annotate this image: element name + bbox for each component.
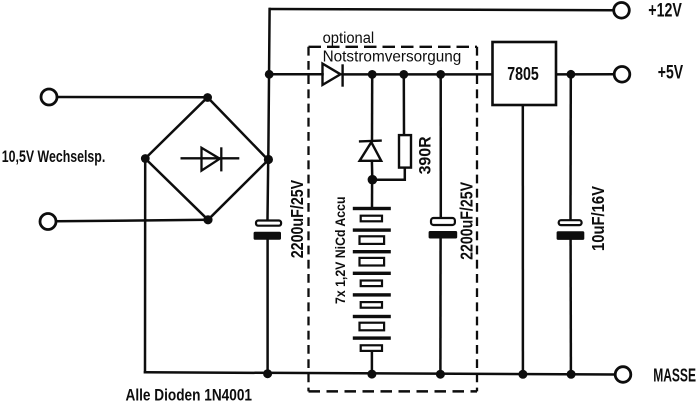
battery cell 6 long plate	[353, 315, 391, 318]
battery cell 7 long plate	[353, 336, 391, 339]
svg-text:+5V: +5V	[658, 63, 683, 84]
wire battery bottom to ground rail	[371, 352, 374, 375]
svg-text:2200uF/25V: 2200uF/25V	[287, 179, 307, 258]
battery B1 7x NiCd cells	[353, 207, 391, 351]
terminal lower AC input	[40, 214, 56, 230]
capacitor C2 2200uF/25V bottom plate	[429, 231, 458, 239]
capacitor C1 2200uF/25V top plate	[256, 221, 281, 226]
junction C2 branch on +5V line	[436, 70, 445, 79]
svg-text:10uF/16V: 10uF/16V	[588, 186, 608, 251]
wire capacitor C1 to ground rail	[266, 240, 269, 374]
battery cell 6 short plate	[360, 323, 385, 331]
battery cell 4 short plate	[361, 281, 382, 287]
diode D2 1N4001 (battery discharge diode, cathode up)	[359, 141, 382, 161]
wire capacitor C3 top: +5V line down to C3	[569, 74, 572, 219]
svg-text:10,5V Wechselsp.: 10,5V Wechselsp.	[2, 147, 106, 166]
battery cell 1 short plate	[361, 216, 382, 222]
battery cell 3 long plate	[353, 250, 391, 253]
bridge rectifier internal diode symbol	[181, 147, 240, 171]
battery cell 5 long plate	[353, 293, 391, 296]
battery cell 2 short plate	[360, 236, 385, 244]
battery cell 1 long plate	[353, 207, 391, 210]
wire +12V rail	[270, 9, 614, 10]
junction D2 branch on +5V line	[368, 70, 377, 79]
wire capacitor C2 top: +5V line down to C2	[439, 74, 442, 217]
battery cell 5 short plate	[361, 302, 382, 308]
svg-text:optional: optional	[323, 30, 375, 47]
wire resistor R1 bottom to junction	[372, 169, 404, 180]
svg-text:7x 1,2V NiCd Accu: 7x 1,2V NiCd Accu	[333, 197, 348, 305]
battery cell 7 short plate	[361, 345, 382, 351]
dashed box right edge	[476, 47, 478, 392]
wire +5V branch from +12V riser to diode D1	[269, 73, 323, 76]
bridge rectifier diamond edge bottom-left	[145, 159, 208, 220]
bridge rectifier diamond edge top-right	[208, 97, 269, 160]
svg-text:Alle Dioden 1N4001: Alle Dioden 1N4001	[126, 385, 253, 402]
svg-text:+12V: +12V	[648, 0, 682, 21]
junction at +12V riser / +5V branch	[265, 70, 274, 79]
voltage regulator U1 7805 body	[493, 42, 557, 105]
diode D1 1N4001 (series diode to 7805)	[323, 64, 343, 87]
svg-text:Notstromversorgung: Notstromversorgung	[323, 49, 462, 66]
junction R1 branch on +5V line	[399, 70, 408, 79]
svg-text:MASSE: MASSE	[653, 364, 696, 385]
junction bridge top node	[203, 93, 212, 102]
bridge rectifier diamond edge bottom-right	[208, 160, 268, 220]
wire 7805 ground pin to ground rail	[522, 105, 525, 374]
junction D2 anode / R1 / battery top	[368, 175, 378, 185]
wire zener branch: +5V line down to diode D2	[371, 74, 374, 141]
svg-text:2200uF/25V: 2200uF/25V	[457, 181, 477, 259]
wire capacitor C3 to ground rail	[569, 240, 572, 374]
terminal +5V output	[614, 67, 630, 83]
junction battery on ground rail	[367, 370, 376, 379]
terminal upper AC input	[41, 89, 57, 105]
dashed box optional Notstromversorgung: top edge	[309, 46, 478, 48]
wire bridge right node down to capacitor C1	[266, 160, 269, 220]
battery cell 4 long plate	[353, 272, 391, 275]
junction 7805 ground on ground rail	[518, 370, 527, 379]
terminal MASSE	[615, 367, 631, 383]
resistor R1 390R body	[399, 135, 411, 168]
junction 7805 output / C3 branch	[567, 70, 576, 79]
wire AC input upper: terminal to bridge top node	[57, 96, 208, 99]
battery cell 3 short plate	[360, 258, 385, 266]
wire junction down to battery top	[371, 180, 374, 207]
junction C3 on ground rail	[567, 370, 576, 379]
junction C1 on ground rail	[263, 369, 272, 378]
capacitor C3 10uF/16V top plate	[559, 220, 582, 225]
wire 7805 output to +5V terminal	[556, 73, 614, 76]
dashed box bottom edge	[309, 390, 478, 393]
wire bridge output up to +12V rail	[268, 9, 269, 160]
wire resistor R1 top: +5V line down to resistor	[403, 74, 406, 135]
junction C2 on ground rail	[436, 370, 445, 379]
terminal +12V output	[614, 3, 630, 19]
svg-text:7805: 7805	[507, 64, 539, 84]
capacitor C2 2200uF/25V top plate	[431, 218, 455, 225]
wire D1 cathode to 7805 input	[343, 73, 493, 76]
junction bridge bottom node	[203, 215, 212, 224]
wire ground rail (MASSE)	[145, 372, 615, 374]
svg-text:390R: 390R	[415, 136, 434, 174]
wire bridge left node down to ground rail	[144, 159, 147, 373]
capacitor C3 10uF/16V bottom plate	[557, 231, 585, 240]
battery cell 2 long plate	[353, 228, 391, 231]
junction bridge left node	[141, 154, 150, 163]
wire diode D2 anode down to junction	[371, 161, 374, 180]
dashed box left edge	[307, 47, 309, 392]
wire AC input lower: terminal to bridge bottom node	[56, 220, 208, 222]
capacitor C1 2200uF/25V bottom plate	[254, 232, 281, 240]
wire capacitor C2 to ground rail	[439, 239, 442, 375]
bridge rectifier diamond edge top-left	[145, 97, 207, 158]
junction bridge right node	[264, 155, 273, 164]
